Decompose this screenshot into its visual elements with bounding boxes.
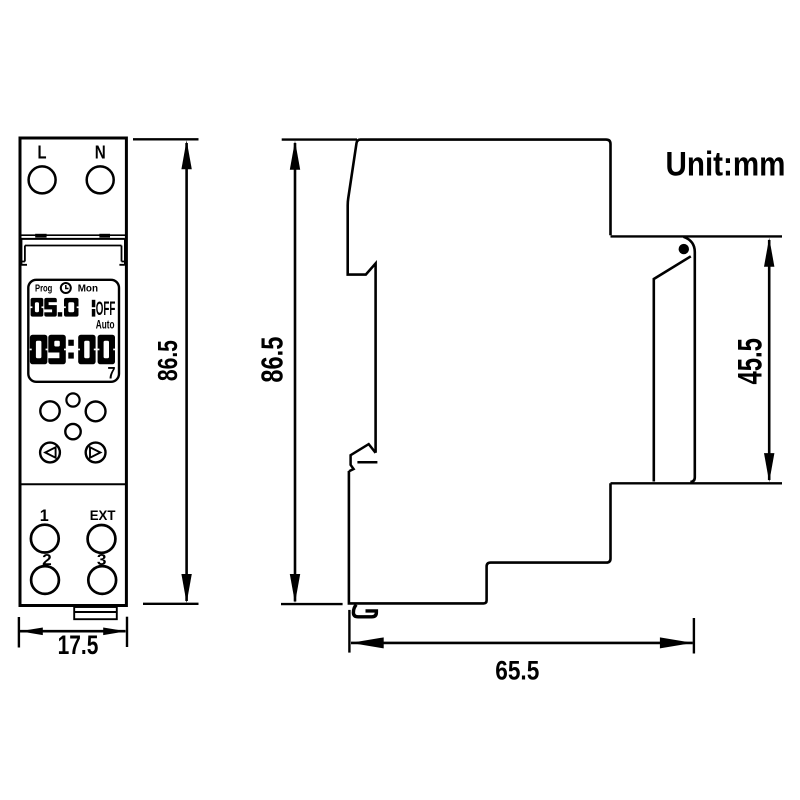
dim 86.5 side: arrow down <box>290 574 300 603</box>
dim 86.5 front: arrow up <box>181 140 191 169</box>
cover right rail <box>119 239 125 265</box>
terminal circle N <box>87 166 114 193</box>
dim 45.5: arrow up <box>764 238 774 267</box>
button right <box>86 402 106 422</box>
middle DIN spring hook <box>349 444 377 471</box>
front view body outline <box>20 138 126 606</box>
button left <box>40 401 59 420</box>
dim 17.5: arrow left <box>20 628 43 636</box>
LCD digits 05.0 <box>31 298 44 317</box>
dim 86.5 side: arrow up <box>290 141 300 170</box>
LCD bezel <box>28 280 119 382</box>
dim 17.5: extension line right <box>126 617 128 647</box>
svg-text:86.5: 86.5 <box>152 340 183 381</box>
dim 17.5: arrow right <box>103 628 126 636</box>
dim 86.5 front: extension line top <box>133 138 199 140</box>
svg-text:7: 7 <box>108 364 116 383</box>
side view upper step line (45.5 top extension) <box>611 235 783 237</box>
svg-text:17.5: 17.5 <box>58 630 99 660</box>
clip lever inner edge <box>654 256 691 481</box>
svg-text:86.5: 86.5 <box>254 337 289 383</box>
button arrow-left <box>40 443 60 463</box>
svg-text:45.5: 45.5 <box>732 338 770 384</box>
LCD digit 1 <box>92 300 96 307</box>
button arrow-right <box>86 443 106 463</box>
svg-text:Mon: Mon <box>78 283 98 295</box>
side view top-right corner and right edge <box>606 140 611 236</box>
dim 65.5: dimension line <box>351 642 693 645</box>
bottom terminal circle 3 <box>88 566 116 594</box>
svg-text:1: 1 <box>40 507 49 525</box>
bottom tab <box>74 607 117 619</box>
dim 65.5: extension line left <box>348 610 350 653</box>
button small top <box>66 393 79 406</box>
dim 17.5: dimension line <box>20 630 126 633</box>
dim 65.5: arrow right <box>660 637 693 648</box>
dim 86.5 side: dimension line <box>294 143 297 602</box>
bottom terminal circle EXT <box>88 525 116 553</box>
dim 17.5: extension line left <box>18 617 20 648</box>
svg-text:EXT: EXT <box>90 508 116 523</box>
dim 45.5: dimension line <box>768 240 771 480</box>
dim 86.5 front: extension line bottom <box>143 603 199 605</box>
divider line <box>20 483 127 485</box>
cover hinge line <box>20 234 127 236</box>
side view lower step line (45.5 bottom extension) <box>611 482 783 484</box>
svg-text:65.5: 65.5 <box>495 656 539 686</box>
LCD clock icon <box>61 283 71 293</box>
dim 65.5: arrow left <box>351 637 384 648</box>
svg-text:N: N <box>95 143 106 163</box>
terminal circle L <box>29 166 56 193</box>
side view top edge + left slant + left notch <box>348 140 606 453</box>
bottom foot hook <box>353 605 376 617</box>
dim 86.5 front: arrow down <box>181 574 191 603</box>
dim 86.5 side: extension line top <box>282 138 357 140</box>
flip cover top edge <box>22 238 125 240</box>
dim 45.5: arrow down <box>764 453 774 482</box>
bottom terminal circle 2 <box>31 566 59 594</box>
clip pivot dot <box>679 244 689 254</box>
side view lower right body outline <box>349 471 611 603</box>
dim 86.5 side: extension line bottom <box>281 603 343 605</box>
svg-text:Unit:mm: Unit:mm <box>666 146 786 184</box>
flip cover inner edge <box>25 245 122 247</box>
svg-text:Prog: Prog <box>35 283 52 295</box>
LCD digits 09:00 <box>30 335 48 364</box>
hinge tick right <box>99 234 110 238</box>
button middle <box>65 424 80 439</box>
cover left rail <box>22 239 28 265</box>
svg-text:Auto: Auto <box>96 318 115 332</box>
svg-text:L: L <box>38 143 47 163</box>
clip lever outer edge <box>684 237 695 482</box>
hinge tick left <box>35 234 46 238</box>
bottom terminal circle 1 <box>31 525 59 553</box>
dim 86.5 front: dimension line <box>185 143 188 601</box>
dim 65.5: extension line right <box>693 618 695 654</box>
